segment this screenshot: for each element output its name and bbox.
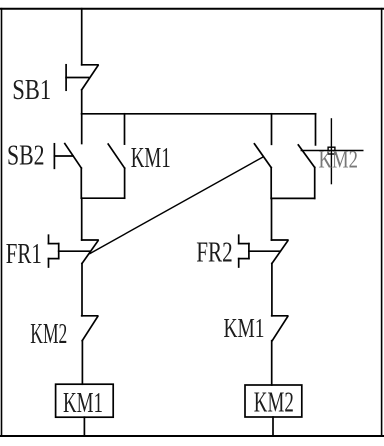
wire: SB1 to split node bbox=[81, 90, 83, 114]
svg-text:FR2: FR2 bbox=[196, 238, 233, 269]
wire: top rail branch to right contact pair (second) bbox=[315, 114, 317, 145]
CAD crosshair cursor with pickbox over label KM2 bbox=[301, 119, 363, 184]
pushbutton SB1 (NC stop button) bbox=[66, 65, 98, 90]
wire: parallel junction horizontal (left) bbox=[81, 197, 124, 199]
wire: top horizontal distribution bbox=[82, 113, 316, 115]
wire: top rail branch to right contact pair (first) bbox=[271, 114, 273, 145]
wire: FR2 to KM1 interlock contact bbox=[271, 264, 273, 316]
svg-text:KM1: KM1 bbox=[63, 387, 103, 419]
mechanical interlock linkage line (FR1 blade to right-branch contact blade) bbox=[90, 157, 263, 254]
wire: KM1 contact to junction bbox=[124, 168, 126, 198]
pushbutton SB2 (NO start button) bbox=[54, 144, 81, 169]
wire: FR1 to KM2 interlock contact bbox=[81, 264, 83, 316]
contact KM2 (NC electrical interlock) bbox=[82, 316, 98, 341]
wire: first right contact to junction bbox=[270, 168, 272, 199]
svg-text:KM1: KM1 bbox=[224, 313, 265, 343]
frame left border bbox=[1, 9, 3, 436]
coil KM1 (contactor coil box) bbox=[56, 384, 114, 417]
contact (NO) right branch first bbox=[254, 144, 271, 168]
thermal overload relay FR2 contact (NC) bbox=[239, 235, 288, 267]
contact KM1 (NC electrical interlock) bbox=[272, 316, 288, 341]
wire: junction to FR1 bbox=[81, 198, 83, 240]
frame right border bbox=[381, 9, 383, 436]
contact (NO) right branch second bbox=[298, 145, 314, 168]
svg-text:KM2: KM2 bbox=[254, 387, 294, 419]
wire: parallel junction horizontal (right) bbox=[271, 197, 315, 199]
wire: KM2 contact to KM1 coil bbox=[81, 341, 83, 385]
wire: second right contact to junction bbox=[314, 167, 316, 198]
coil KM2 (contactor coil box) bbox=[245, 385, 302, 417]
svg-text:SB1: SB1 bbox=[12, 74, 51, 106]
wire: SB2 to junction bbox=[80, 168, 82, 198]
wire: branch to KM1 contact bbox=[124, 114, 126, 144]
svg-text:SB2: SB2 bbox=[7, 141, 45, 172]
svg-text:KM1: KM1 bbox=[131, 143, 171, 174]
contact KM1 (NO self-holding auxiliary contact) bbox=[108, 144, 124, 168]
top supply rail / frame top bbox=[0, 8, 384, 10]
thermal overload relay FR1 contact (NC) bbox=[49, 235, 99, 267]
svg-text:KM2: KM2 bbox=[319, 146, 359, 173]
wire: KM1 contact to KM2 coil bbox=[271, 341, 273, 385]
svg-text:KM2: KM2 bbox=[30, 319, 67, 350]
wire: right junction to FR2 bbox=[271, 198, 273, 240]
wire: top rail to SB1 bbox=[81, 9, 83, 65]
wire: KM2 coil to bottom rail bbox=[272, 417, 274, 436]
wire: KM1 coil to bottom rail bbox=[83, 417, 85, 436]
wire: split to SB2 bbox=[81, 114, 83, 144]
svg-text:FR1: FR1 bbox=[6, 239, 42, 270]
bottom supply rail / frame bottom bbox=[0, 435, 384, 437]
